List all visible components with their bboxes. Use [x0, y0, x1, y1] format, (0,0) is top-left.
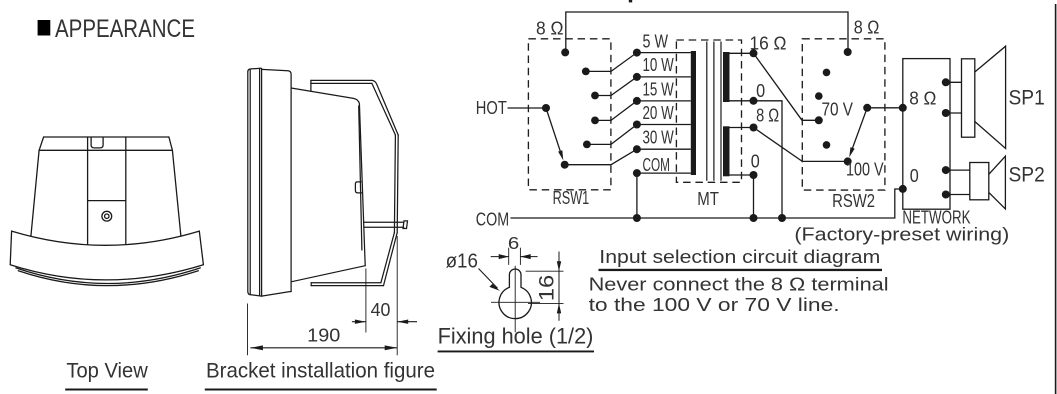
node network SP1 out b — [942, 109, 950, 117]
svg-text:70 V: 70 V — [822, 100, 854, 120]
wire secondary 0 upper to rail — [754, 101, 783, 218]
bracket figure clip detail — [355, 182, 361, 193]
node tap COM — [633, 169, 641, 177]
svg-text:0: 0 — [910, 166, 919, 186]
transformer MT secondary bar upper — [723, 52, 730, 102]
svg-text:SP2: SP2 — [1009, 164, 1045, 187]
top view band bottom rim — [16, 268, 200, 286]
node RSW1 8ohm terminal — [561, 48, 569, 56]
node RSW2 wiper pivot — [863, 104, 871, 112]
node network 8ohm input — [899, 104, 907, 112]
node RSW2 contact a — [823, 69, 831, 77]
node rail junction COM — [633, 214, 641, 222]
svg-text:ø16: ø16 — [446, 250, 478, 273]
keyhole centerlines — [491, 266, 540, 332]
RSW2 wiper arrowhead — [849, 147, 855, 157]
bracket figure rear trapezoid body — [291, 88, 365, 282]
svg-text:16: 16 — [535, 275, 558, 301]
bracket wall plate — [394, 135, 398, 233]
svg-text:Bracket installation figure: Bracket installation figure — [206, 358, 435, 382]
svg-text:MT: MT — [697, 189, 719, 209]
top view front grille band — [10, 231, 203, 280]
wire RSW1 contact to 20W — [587, 125, 637, 145]
transformer secondary tap leads — [730, 53, 754, 175]
svg-text:Never connect the 8 Ω terminal: Never connect the 8 Ω terminal — [589, 274, 889, 294]
top view body outline — [31, 137, 181, 236]
svg-text:100 V: 100 V — [846, 159, 884, 179]
bracket upper bend — [372, 80, 398, 135]
node network SP2 out b — [942, 191, 950, 199]
transformer MT secondary bar lower — [723, 126, 730, 176]
svg-text:SP1: SP1 — [1009, 87, 1045, 110]
node tap 0 lower — [750, 171, 758, 179]
svg-text:Input selection circuit diagra: Input selection circuit diagram — [599, 247, 880, 267]
transformer core lines — [707, 42, 721, 181]
svg-text:10 W: 10 W — [643, 55, 674, 75]
svg-text:6: 6 — [508, 233, 519, 253]
wire 16ohm to 70V — [754, 53, 819, 120]
transformer MT primary bar — [691, 51, 696, 175]
node rail junction 0 upper — [778, 214, 786, 222]
node RSW1 contact 2 — [591, 92, 599, 100]
MT dashed box — [676, 40, 741, 182]
wire secondary 0 lower to rail — [753, 175, 755, 218]
top view screw — [102, 211, 112, 221]
bracket figure rear stud — [364, 221, 408, 229]
svg-text:RSW1: RSW1 — [553, 188, 590, 208]
circuit labels — [476, 18, 1045, 245]
svg-text:RSW2: RSW2 — [832, 191, 875, 211]
title bullet square — [38, 20, 51, 36]
dimension 16 vertical — [526, 252, 564, 321]
node RSW2 contact c — [823, 141, 831, 149]
stray mark top center — [629, 0, 632, 2]
svg-text:20 W: 20 W — [643, 103, 674, 123]
svg-text:30 W: 30 W — [643, 128, 674, 148]
bracket top arm — [311, 80, 372, 91]
svg-text:8 Ω: 8 Ω — [536, 19, 564, 39]
svg-text:APPEARANCE: APPEARANCE — [55, 15, 195, 43]
wire RSW1 COM terminal down — [636, 173, 638, 218]
svg-text:8 Ω: 8 Ω — [854, 18, 880, 38]
speaker SP2 — [970, 156, 1006, 209]
wire RSW1 contact to 15W — [595, 101, 637, 121]
svg-text:190: 190 — [307, 325, 340, 346]
node RSW1 contact 3 — [591, 117, 599, 125]
keyhole outline — [499, 269, 531, 319]
RSW2 wiper — [852, 108, 867, 149]
node tap 30W — [633, 145, 641, 153]
svg-text:0: 0 — [751, 151, 760, 171]
page border right edge — [1055, 4, 1057, 394]
RSW1 wiper arrowhead — [558, 150, 563, 160]
dimension extension lines bracket — [248, 236, 398, 355]
node network SP2 out a — [942, 166, 950, 174]
node RSW1 contact 4 — [583, 141, 591, 149]
node RSW1 common contact — [561, 161, 569, 169]
bracket figure front panel — [248, 68, 262, 296]
bracket figure cabinet front box — [262, 69, 292, 296]
bracket lower bend — [381, 233, 397, 286]
svg-text:HOT: HOT — [476, 98, 507, 118]
node tap 16ohm — [750, 49, 758, 57]
RSW1 wiper — [546, 108, 561, 152]
svg-text:8 Ω: 8 Ω — [756, 105, 779, 125]
svg-text:COM: COM — [643, 155, 671, 175]
junction dots — [542, 48, 950, 222]
dimension 40 — [352, 299, 417, 324]
node tap 10W — [633, 73, 641, 81]
dimension 190 — [250, 325, 397, 351]
node network SP1 out a — [942, 78, 950, 86]
label diameter 16 with leader — [446, 250, 500, 291]
svg-text:Fixing hole (1/2): Fixing hole (1/2) — [438, 323, 594, 348]
svg-text:(Factory-preset wiring): (Factory-preset wiring) — [794, 224, 1009, 244]
svg-text:to the 100 V or 70 V line.: to the 100 V or 70 V line. — [589, 295, 840, 315]
node tap 8ohm — [750, 124, 758, 132]
dimension 6 slot width — [491, 233, 538, 265]
svg-text:8 Ω: 8 Ω — [909, 88, 936, 108]
node tap 5W — [633, 49, 641, 57]
svg-text:COM: COM — [476, 209, 509, 229]
wire RSW2 wiper to network — [867, 107, 903, 109]
wire HOT lead — [508, 107, 547, 109]
node rail junction 0 lower — [750, 214, 758, 222]
RSW1 dashed box — [528, 39, 611, 190]
top view center channel lines — [88, 137, 126, 244]
RSW2 dashed box — [802, 39, 885, 190]
wire COM rail — [511, 189, 903, 218]
svg-text:0: 0 — [756, 81, 765, 101]
node network 0 input — [899, 185, 907, 193]
node RSW2 70V terminal — [815, 116, 823, 124]
wire 8ohm to 100V — [754, 128, 848, 162]
svg-text:15 W: 15 W — [643, 79, 674, 99]
top view handle notch — [91, 138, 103, 148]
transformer primary tap leads — [637, 53, 691, 174]
wire RSW1 contact to 10W — [595, 77, 637, 96]
node tap 15W — [633, 97, 641, 105]
node tap 0 upper — [750, 97, 758, 105]
node RSW2 100V terminal — [844, 157, 852, 165]
wire RSW1 common to 30W tap — [565, 149, 637, 165]
svg-text:Top View: Top View — [66, 358, 148, 382]
network to SP1 wires — [946, 82, 962, 113]
wire top rail 8ohm to 8ohm — [566, 12, 848, 52]
node RSW2 contact b — [815, 92, 823, 100]
svg-text:5 W: 5 W — [643, 32, 669, 52]
node tap 20W — [633, 121, 641, 129]
NETWORK box — [903, 59, 950, 210]
svg-text:40: 40 — [371, 299, 391, 320]
wire RSW1 contact to 5W — [586, 53, 637, 72]
network to SP2 wires — [946, 170, 970, 194]
svg-text:16 Ω: 16 Ω — [750, 34, 787, 54]
bracket bottom arm — [311, 283, 383, 286]
node RSW1 contact 1 — [582, 68, 590, 76]
speaker SP1 — [962, 46, 1006, 148]
node RSW2 8ohm terminal — [844, 48, 852, 56]
node RSW1 wiper pivot — [542, 104, 550, 112]
